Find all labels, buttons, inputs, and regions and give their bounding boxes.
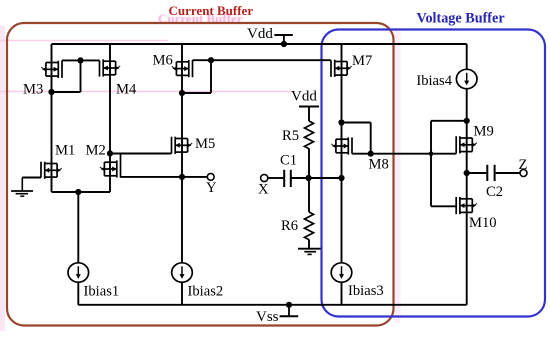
wire: M1 gate to ground bbox=[22, 177, 41, 179]
wire: Vdd top rail bbox=[52, 43, 467, 45]
ground (M1 gate) bbox=[11, 178, 33, 197]
svg-text:Z: Z bbox=[519, 157, 528, 173]
svg-text:R5: R5 bbox=[282, 128, 299, 144]
artifact: pale pink band right of current-buffer box bbox=[395, 28, 401, 323]
svg-text:M8: M8 bbox=[369, 157, 389, 173]
wire: node X lead bbox=[268, 177, 283, 179]
svg-text:Ibias2: Ibias2 bbox=[188, 284, 224, 300]
svg-text:M3: M3 bbox=[23, 82, 43, 98]
svg-text:C2: C2 bbox=[486, 184, 503, 200]
svg-text:M7: M7 bbox=[352, 53, 372, 69]
transistor M10 (NMOS) bbox=[456, 197, 477, 214]
transistor M6 (PMOS) bbox=[172, 60, 193, 77]
wire: M3/M1 column bbox=[51, 44, 53, 192]
wire: M6 diode loop vertical bbox=[210, 60, 212, 93]
transistor M8 (PMOS) bbox=[331, 137, 352, 154]
junction: M9 drain bbox=[464, 118, 470, 124]
Vdd terminal top bbox=[274, 35, 292, 44]
transistor M5 (NMOS) bbox=[172, 137, 193, 154]
artifact: faint pink smear line bbox=[0, 91, 292, 93]
artifact: pale pink band left edge bbox=[0, 26, 5, 331]
artifact: ghost title text bbox=[158, 11, 243, 26]
junction: M2 drain bbox=[107, 150, 113, 156]
resistor R6 bbox=[305, 212, 314, 240]
wire: C1 to R junction bbox=[292, 177, 342, 179]
svg-text:Ibias1: Ibias1 bbox=[84, 284, 120, 300]
wire: Ibias2 to Vss rail bbox=[181, 282, 183, 304]
wire: Ibias4/M9/M10 column upper bbox=[466, 44, 468, 69]
wire: M6-M7 gate net bbox=[193, 59, 332, 61]
junction: Vss on rail bbox=[286, 302, 292, 308]
svg-text:C1: C1 bbox=[280, 153, 297, 169]
wire: gate bus top to M9 drain bbox=[431, 120, 467, 122]
junction: M8 source / node X net bbox=[338, 175, 344, 181]
wire: M8 diode loop top bbox=[342, 122, 371, 124]
wire: C2 left lead bbox=[467, 172, 487, 174]
Vdd terminal mid bbox=[299, 106, 319, 108]
svg-text:M10: M10 bbox=[469, 215, 497, 231]
transistor M7 (PMOS) bbox=[331, 60, 352, 77]
svg-text:Y: Y bbox=[206, 180, 217, 196]
junction: M7 drain / M8 drain bbox=[338, 119, 344, 125]
transistor M9 (NMOS) bbox=[456, 136, 477, 154]
wire: voltage buffer gate bus bbox=[430, 121, 432, 207]
artifact: faint pink smear line bbox=[0, 40, 168, 42]
wire: Ibias1 drop bbox=[77, 192, 79, 263]
wire: Ibias1 to Vss rail bbox=[77, 282, 79, 304]
wire: M3-M4 gate net bbox=[62, 59, 100, 61]
wire: C2 right lead bbox=[496, 172, 520, 174]
junction: M3-M4 gate bbox=[77, 57, 83, 63]
node Z terminal bbox=[520, 170, 527, 177]
transistor M4 (PMOS) bbox=[100, 59, 121, 76]
Vss terminal bbox=[280, 305, 299, 316]
wire: R6 to ground bbox=[308, 240, 310, 249]
svg-text:Voltage Buffer: Voltage Buffer bbox=[417, 11, 505, 27]
junction: M1-M2 source junction bbox=[75, 189, 81, 195]
svg-text:M9: M9 bbox=[474, 124, 494, 140]
capacitor C2 bbox=[487, 165, 494, 181]
junction: M6 drain bbox=[179, 90, 185, 96]
junction: R5-R6-C1 junction bbox=[306, 175, 312, 181]
ground (R6) bbox=[298, 249, 321, 255]
wire: M2 drain to M5 gate bbox=[110, 153, 172, 155]
transistor M2 (NMOS) bbox=[100, 154, 121, 178]
current source Ibias2 bbox=[172, 263, 193, 282]
wire: M6 diode loop horizontal bbox=[182, 92, 211, 94]
svg-text:Vdd: Vdd bbox=[291, 88, 317, 104]
junction: M3 drain bbox=[48, 89, 54, 95]
capacitor C1 bbox=[284, 170, 291, 187]
node Y terminal bbox=[207, 174, 214, 181]
wire: R5 to X junction bbox=[308, 149, 310, 213]
svg-text:Ibias3: Ibias3 bbox=[348, 283, 384, 299]
wire: node Y row bbox=[121, 176, 208, 178]
wire: Ibias4/M9/M10 column lower bbox=[466, 89, 468, 304]
wire: Vss bottom rail bbox=[78, 304, 466, 306]
wire: M3 diode loop vertical bbox=[80, 60, 82, 92]
wire: M8 diode loop vertical bbox=[370, 123, 372, 154]
wire: M3 diode loop horizontal bbox=[52, 91, 81, 93]
current source Ibias3 bbox=[331, 263, 352, 282]
wire: M7/M8 column bbox=[341, 44, 343, 263]
svg-text:X: X bbox=[258, 182, 269, 198]
node X terminal bbox=[261, 174, 268, 181]
current source Ibias1 bbox=[68, 263, 89, 282]
transistor M1 (NMOS) bbox=[41, 162, 62, 179]
transistor M3 (PMOS) bbox=[41, 60, 62, 78]
current buffer box bbox=[7, 23, 394, 326]
svg-text:M2: M2 bbox=[86, 143, 106, 159]
svg-text:Vss: Vss bbox=[256, 309, 279, 325]
svg-text:Vdd: Vdd bbox=[247, 26, 273, 42]
junction: M6-M7 gate bbox=[208, 57, 214, 63]
svg-text:M6: M6 bbox=[153, 53, 173, 69]
junction: node Y junction bbox=[179, 174, 185, 180]
svg-text:M1: M1 bbox=[55, 143, 75, 159]
current source Ibias4 bbox=[456, 69, 477, 88]
wire: Ibias3 to Vss rail bbox=[341, 282, 343, 304]
wire: Vdd2 to R5 bbox=[308, 107, 310, 122]
junction: Vdd on rail bbox=[281, 41, 287, 47]
wire: M6/M5 column upper bbox=[181, 44, 183, 263]
junction: M9 source / C2 bbox=[464, 170, 470, 176]
wire: gate bus to M10 gate bbox=[431, 205, 456, 207]
wire: M8 gate to M9 gate row bbox=[352, 153, 456, 155]
wire: M4/M2 column bbox=[109, 44, 111, 192]
junction: M8 gate loop bbox=[368, 151, 374, 157]
svg-text:M4: M4 bbox=[116, 82, 137, 98]
voltage buffer box bbox=[322, 30, 546, 317]
svg-text:Ibias4: Ibias4 bbox=[416, 73, 452, 89]
svg-text:R6: R6 bbox=[281, 218, 298, 234]
junction: gate bus tap bbox=[429, 151, 434, 156]
svg-text:M5: M5 bbox=[195, 136, 215, 152]
svg-text:Current Buffer: Current Buffer bbox=[169, 3, 254, 18]
resistor R5 bbox=[305, 121, 314, 149]
wire: M1-M2 source row bbox=[52, 191, 111, 193]
